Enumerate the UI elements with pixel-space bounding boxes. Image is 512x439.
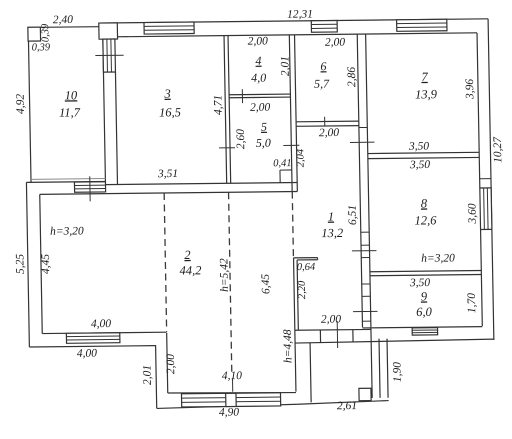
- svg-text:2,00: 2,00: [250, 102, 271, 114]
- window W7 double window 4,10: [181, 393, 280, 407]
- tambour inner left wall B: [310, 343, 311, 403]
- window: [311, 20, 337, 32]
- svg-text:1,70: 1,70: [466, 293, 478, 314]
- svg-text:5,0: 5,0: [256, 136, 271, 150]
- svg-text:44,2: 44,2: [179, 263, 201, 277]
- svg-text:5,25: 5,25: [14, 254, 26, 275]
- svg-text:1: 1: [328, 210, 335, 224]
- svg-text:2,01: 2,01: [141, 365, 153, 385]
- bottom outer wall line (south): [295, 339, 494, 343]
- svg-text:h=5,42: h=5,42: [218, 258, 231, 292]
- L-wall 0,64 top: [294, 257, 318, 259]
- svg-text:10,27: 10,27: [492, 136, 504, 163]
- lower-left room: top wall: [26, 181, 105, 184]
- lower-left room: left wall: [26, 182, 29, 347]
- svg-text:0,39: 0,39: [40, 23, 51, 42]
- svg-text:4,0: 4,0: [251, 71, 266, 85]
- svg-text:13,9: 13,9: [415, 87, 438, 101]
- window: [66, 333, 120, 344]
- svg-text:6,0: 6,0: [416, 305, 433, 319]
- window: [480, 188, 492, 230]
- step block in tambour: [359, 388, 371, 400]
- svg-text:8: 8: [421, 196, 428, 210]
- svg-text:4,92: 4,92: [15, 94, 27, 115]
- bottom wall inner line under room 9: [363, 327, 483, 328]
- joint line above W9: [480, 178, 491, 180]
- svg-text:5,7: 5,7: [314, 77, 330, 91]
- svg-text:4,00: 4,00: [91, 318, 112, 330]
- window: [103, 39, 116, 72]
- tick on wall 45|61: [283, 144, 299, 146]
- svg-text:9: 9: [421, 289, 428, 303]
- svg-text:3,50: 3,50: [409, 277, 431, 289]
- svg-text:2,00: 2,00: [165, 354, 177, 375]
- svg-text:10: 10: [65, 88, 79, 102]
- svg-text:2,00: 2,00: [321, 314, 342, 326]
- tick on wall 6|1: [324, 117, 326, 126]
- svg-text:0,64: 0,64: [297, 262, 316, 273]
- tick of 4,10: [231, 378, 233, 392]
- window: [397, 19, 447, 31]
- room 1 bottom wall / tambour top: [295, 328, 371, 331]
- wall between rooms 4 and 5: [229, 93, 290, 96]
- corner block 0,39 x 0,39: [28, 27, 41, 41]
- svg-text:4,71: 4,71: [212, 95, 224, 115]
- svg-text:2,00: 2,00: [319, 127, 340, 139]
- svg-text:3,50: 3,50: [408, 141, 430, 153]
- svg-text:12,6: 12,6: [414, 213, 437, 227]
- window: [144, 22, 194, 34]
- lower-left room: bottom wall: [29, 346, 155, 347]
- tick on wall 4|5: [241, 89, 243, 103]
- wall between rooms 6 and 1: [296, 120, 359, 123]
- niche 0,41: [280, 169, 292, 171]
- corner pilaster NW: [99, 23, 118, 39]
- svg-text:4,90: 4,90: [219, 407, 240, 419]
- room 10 annex: top wall: [40, 26, 99, 29]
- door jamb: [352, 330, 354, 342]
- svg-text:7: 7: [421, 70, 428, 84]
- svg-text:6,51: 6,51: [347, 205, 359, 225]
- svg-text:2,00: 2,00: [248, 35, 269, 47]
- svg-text:3: 3: [163, 87, 171, 101]
- svg-text:h=3,20: h=3,20: [421, 252, 455, 264]
- svg-text:4,45: 4,45: [40, 254, 52, 275]
- interior wall under rooms 3/5 (3,51 wall): [105, 183, 297, 185]
- wall between rooms 7 and 8: [368, 152, 479, 153]
- svg-text:2,60: 2,60: [235, 129, 247, 150]
- svg-text:11,7: 11,7: [59, 105, 81, 119]
- tick of window W5: [89, 176, 91, 201]
- svg-text:4,10: 4,10: [222, 370, 243, 382]
- svg-text:13,2: 13,2: [321, 226, 343, 240]
- door jamb: [319, 330, 321, 342]
- svg-text:2,20: 2,20: [297, 280, 308, 299]
- svg-text:6,45: 6,45: [260, 274, 272, 295]
- vestibule south wall: [157, 404, 298, 408]
- svg-text:5: 5: [261, 120, 267, 134]
- svg-text:1,90: 1,90: [391, 362, 403, 383]
- svg-text:2: 2: [184, 248, 191, 262]
- svg-text:2,61: 2,61: [337, 400, 357, 412]
- svg-text:6: 6: [320, 59, 326, 73]
- svg-text:16,5: 16,5: [159, 105, 181, 119]
- porch right wall (1,90): [371, 327, 372, 398]
- wall between room 3 and rooms 4,5: [224, 36, 227, 184]
- svg-text:h=3,20: h=3,20: [50, 225, 84, 237]
- svg-text:2,01: 2,01: [279, 56, 291, 76]
- svg-text:3,96: 3,96: [464, 79, 476, 101]
- svg-text:4: 4: [255, 54, 261, 68]
- dashed line zone 1: [164, 193, 166, 332]
- svg-text:4,00: 4,00: [77, 348, 98, 360]
- wall between rooms 8 and 9: [370, 271, 481, 272]
- svg-text:3,51: 3,51: [157, 168, 178, 180]
- tick on wall 3|45: [219, 147, 235, 149]
- svg-text:3,60: 3,60: [467, 203, 479, 225]
- tick of 2,00: [336, 321, 338, 348]
- outer wall: right (east): [488, 19, 494, 340]
- dashed line zone 2: [229, 192, 232, 375]
- svg-text:12,31: 12,31: [287, 8, 313, 20]
- tick of window W1: [95, 54, 123, 56]
- window: [412, 328, 438, 335]
- wall between rooms 4,5 and 6,1: [289, 35, 292, 192]
- svg-text:2,86: 2,86: [346, 67, 358, 88]
- tambour left wall: [294, 258, 296, 392]
- chimney wall between 6,1 and 7,8,9: [357, 34, 362, 327]
- outer wall: top (north): [99, 19, 488, 23]
- svg-text:h=4,48: h=4,48: [282, 329, 295, 363]
- window: [74, 182, 105, 193]
- step wall (2,01 / 2,00): [156, 345, 157, 408]
- room 10 floor line (thin): [31, 178, 105, 181]
- svg-text:2,00: 2,00: [325, 37, 346, 49]
- dashed line zone 3: [292, 192, 293, 256]
- svg-text:0,39: 0,39: [32, 42, 51, 53]
- svg-text:0,41: 0,41: [273, 158, 292, 169]
- svg-text:2,40: 2,40: [53, 14, 74, 26]
- window W7 mid post: [226, 393, 237, 406]
- tambour floor line: [298, 401, 389, 405]
- svg-text:3,50: 3,50: [409, 159, 431, 171]
- room 10 annex: left wall: [28, 41, 31, 183]
